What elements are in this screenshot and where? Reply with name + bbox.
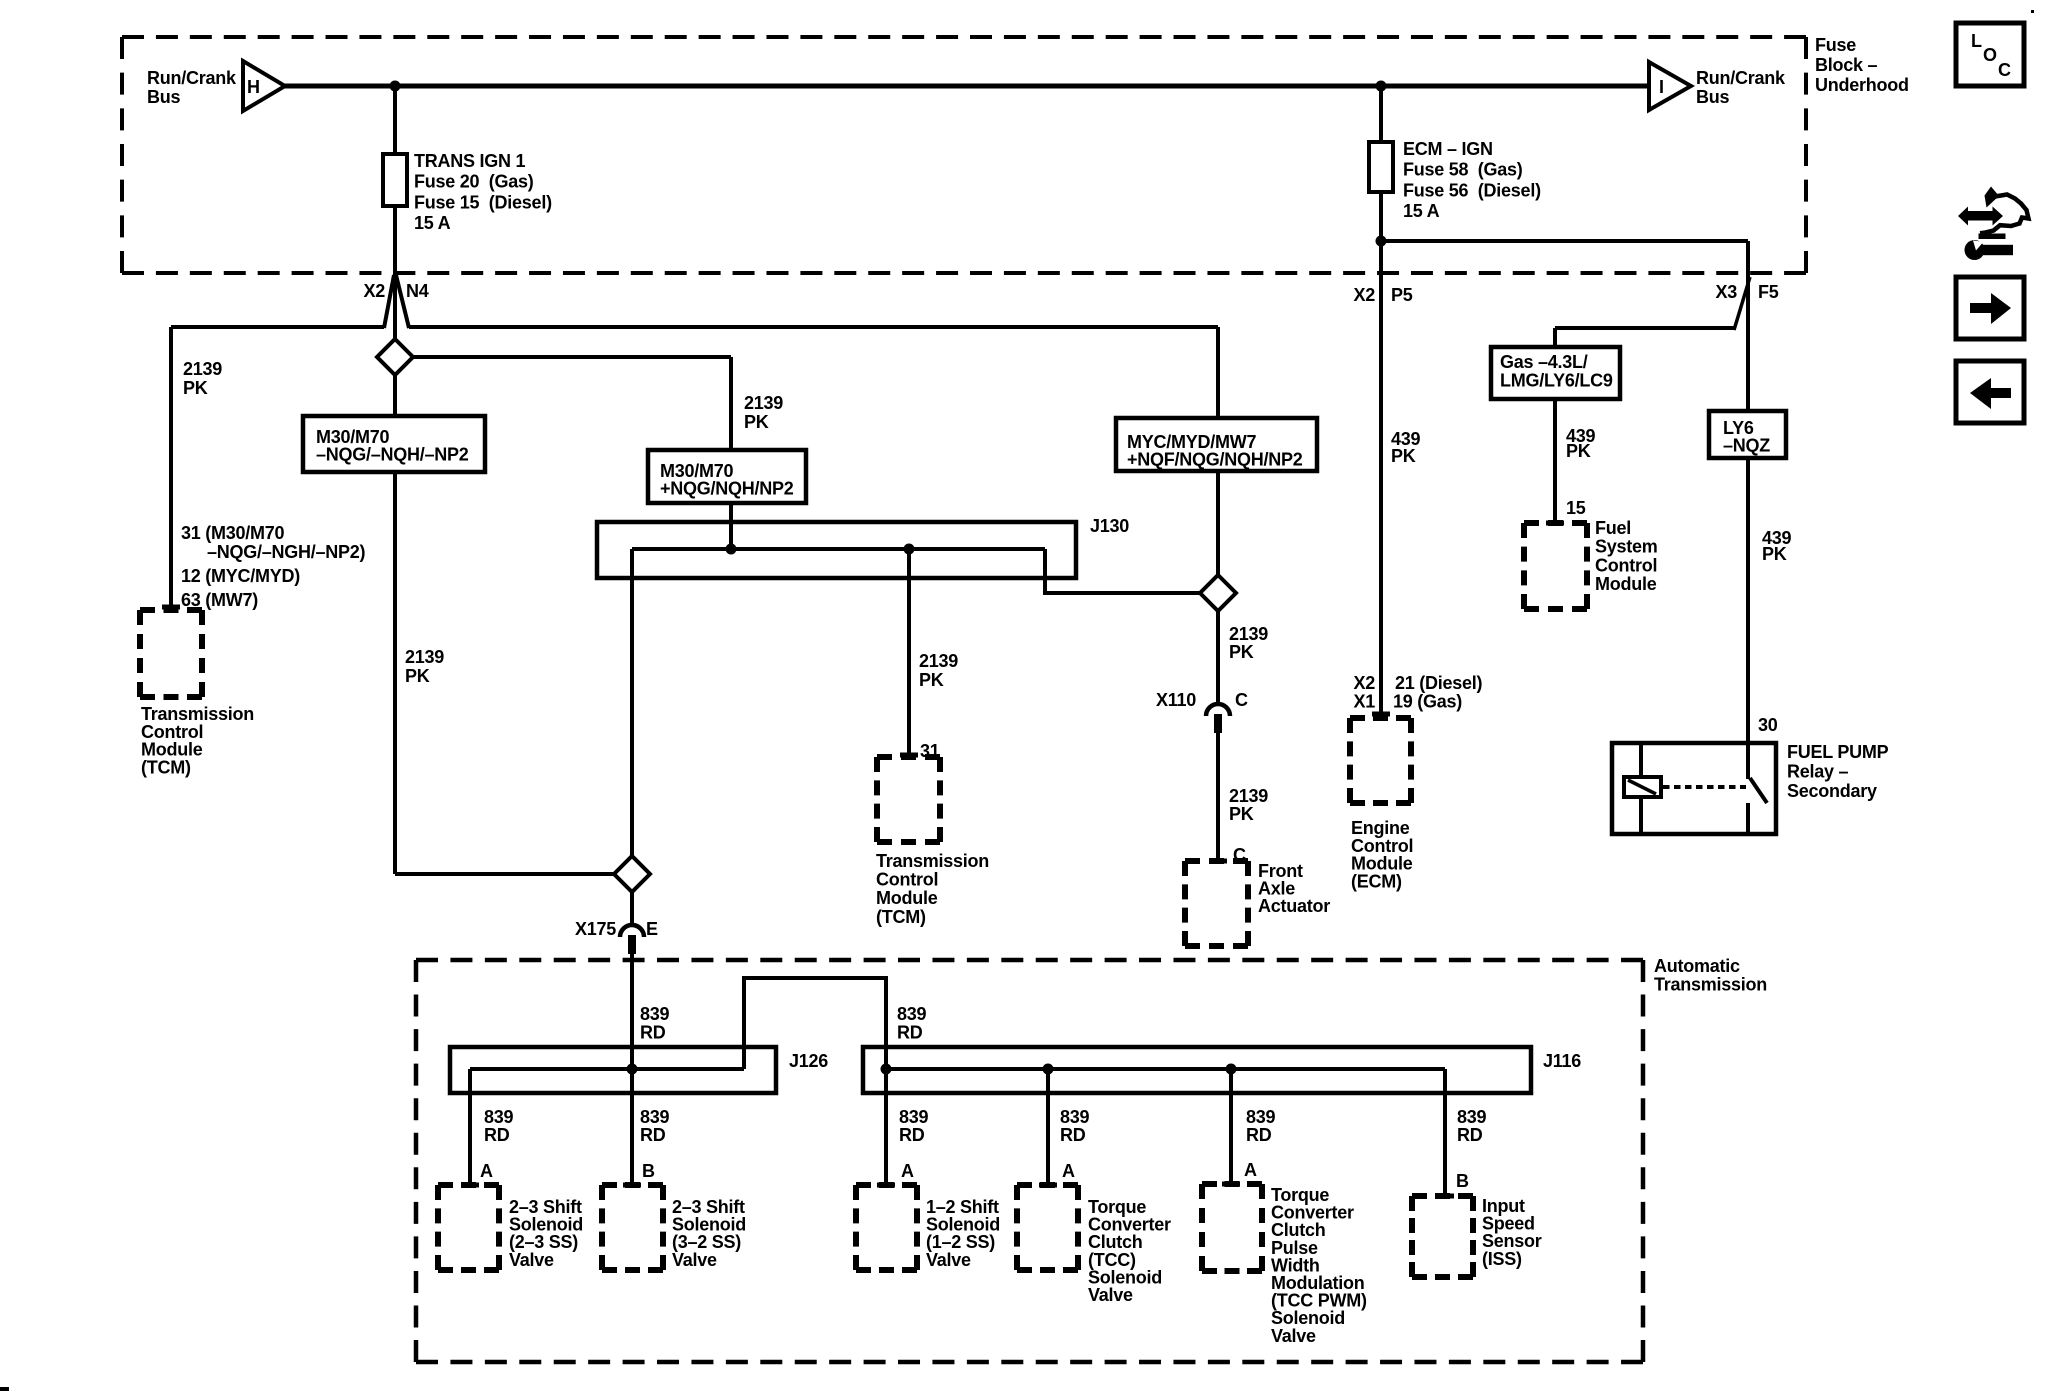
svg-text:Gas –4.3L/: Gas –4.3L/ [1500, 352, 1588, 372]
svg-text:H: H [247, 77, 260, 97]
svg-text:839: 839 [897, 1004, 927, 1024]
label Engine Control Module (ECM) [1351, 818, 1413, 891]
label Input Speed Sensor (ISS) [1482, 1196, 1542, 1269]
svg-text:Run/Crank: Run/Crank [1696, 68, 1786, 88]
module Transmission Control Module (TCM) middle dashed box [877, 757, 940, 842]
label 2139 PK +NQG branch [744, 393, 783, 432]
svg-text:PK: PK [183, 378, 208, 398]
relay actuation dashed link [1663, 785, 1746, 789]
svg-text:Valve: Valve [672, 1250, 717, 1270]
icon forward arrow box [1956, 277, 2024, 339]
wire bus to fuse TRANS IGN 1 [393, 86, 397, 154]
connector X110 inline [1206, 704, 1230, 733]
wire J130 bus left end down to diamond [630, 549, 634, 856]
label 839 RD drop 2-3 SS A [484, 1107, 514, 1145]
wire splice to +NQG branch horizontal [413, 355, 731, 359]
svg-text:ECM – IGN: ECM – IGN [1403, 139, 1493, 159]
wire 439 PK LY6 to fuel pump relay pin 30 [1746, 458, 1750, 779]
label Transmission Control Module (TCM) left [141, 704, 254, 777]
relay coil lead lower [1639, 797, 1643, 832]
svg-text:PK: PK [1229, 804, 1254, 824]
module TCC PWM Solenoid Valve dashed box [1202, 1184, 1262, 1271]
tick Front Axle Actuator pin [1209, 859, 1227, 864]
label 439 PK LY6 branch [1762, 528, 1792, 564]
label Fuel System Control Module [1595, 518, 1658, 594]
svg-text:Actuator: Actuator [1258, 896, 1330, 916]
svg-text:Module: Module [876, 888, 938, 908]
label 2139 PK below M30 box [405, 647, 444, 686]
tick Fuel System Control Module pin [1546, 521, 1564, 526]
label 839 RD drop TCC PWM A [1246, 1107, 1276, 1145]
svg-text:PK: PK [1566, 441, 1591, 461]
wire X2/N4 to MYC branch horizontal [409, 325, 1218, 329]
svg-text:N4: N4 [406, 281, 429, 301]
svg-text:Bus: Bus [1696, 87, 1729, 107]
svg-text:Valve: Valve [1088, 1285, 1133, 1305]
box MYC/MYD/MW7 +NQF/NQG/NQH/NP2 [1116, 418, 1317, 471]
svg-text:Secondary: Secondary [1787, 781, 1877, 801]
label Torque Converter Clutch (TCC) Solenoid Valve [1088, 1197, 1171, 1305]
svg-text:2139: 2139 [183, 359, 222, 379]
relay switch arm [1750, 778, 1767, 803]
svg-text:Run/Crank: Run/Crank [147, 68, 237, 88]
wire 839 RD J116 to TCC PWM solenoid A [1229, 1069, 1233, 1182]
svg-text:15: 15 [1566, 498, 1586, 518]
junction J116 bus at bridge [881, 1064, 892, 1075]
svg-text:Fuse 15 (Diesel): Fuse 15 (Diesel) [414, 192, 552, 212]
wire 839 RD J116 to input speed sensor B [1443, 1069, 1447, 1194]
svg-text:(ISS): (ISS) [1482, 1249, 1522, 1269]
tick pin 1-2 SS valve [877, 1183, 895, 1188]
wire F5 to Gas-4.3L branch horizontal [1555, 326, 1735, 330]
box M30/M70 +NQG/NQH/NP2 [648, 450, 806, 503]
svg-text:PK: PK [405, 666, 430, 686]
svg-text:15 A: 15 A [1403, 201, 1440, 221]
svg-text:2139: 2139 [405, 647, 444, 667]
label 839 RD drop 1-2 SS A [899, 1107, 929, 1145]
relay switch contact stub [1746, 803, 1750, 832]
svg-text:Fuse 20 (Gas): Fuse 20 (Gas) [414, 172, 534, 192]
label 839 RD above J126 [640, 1004, 670, 1043]
svg-text:15 A: 15 A [414, 213, 451, 233]
wire J130 bus right step down [1045, 549, 1200, 593]
svg-text:(ECM): (ECM) [1351, 871, 1402, 891]
wire 439 PK Gas box to Fuel System Control Module [1553, 399, 1557, 521]
label 439 PK ECM branch [1391, 429, 1421, 466]
bus source triangle H [243, 61, 285, 111]
svg-text:Control: Control [876, 870, 938, 890]
label TCC PWM Solenoid Valve [1271, 1185, 1367, 1346]
svg-text:X2: X2 [363, 281, 385, 301]
connector X2/N4 tent symbol [384, 275, 409, 328]
module Transmission Control Module (TCM) left dashed box [140, 610, 202, 697]
label pin 31 line1 [181, 523, 285, 543]
tick pin 2-3 SS valve [461, 1183, 479, 1188]
svg-text:2139: 2139 [919, 651, 958, 671]
svg-text:12 (MYC/MYD): 12 (MYC/MYD) [181, 566, 300, 586]
svg-text:L: L [1971, 31, 1982, 51]
svg-text:X3: X3 [1715, 282, 1737, 302]
svg-text:RD: RD [640, 1125, 666, 1145]
label Transmission Control Module (TCM) middle [876, 851, 989, 927]
svg-text:839: 839 [1246, 1107, 1276, 1127]
module TCC Solenoid Valve dashed box [1017, 1185, 1078, 1270]
svg-text:PK: PK [1762, 544, 1787, 564]
svg-text:Automatic: Automatic [1654, 956, 1740, 976]
icon harness routing (double arrow, harness band, wrench) [1958, 187, 2029, 261]
splice diamond on MYC branch [1200, 575, 1236, 611]
label M30/M70 +NQG/NQH/NP2 [660, 461, 794, 499]
wire 839 RD X175 into J126 [630, 954, 634, 1069]
svg-text:30: 30 [1758, 715, 1778, 735]
label 2139 PK left branch [183, 359, 222, 398]
label 1-2 Shift Solenoid (1-2 SS) Valve [926, 1197, 1000, 1270]
svg-text:(TCM): (TCM) [141, 757, 191, 777]
wire 2139 PK M30 box down [393, 472, 397, 874]
svg-text:F5: F5 [1758, 282, 1779, 302]
wire 2139 PK to M30/M70 +NQG box [729, 357, 733, 450]
label 839 RD bridge to J116 [897, 1004, 927, 1043]
svg-text:Bus: Bus [147, 87, 180, 107]
tick TCM middle pin [900, 753, 918, 758]
wire X2/N4 to left TCM branch horizontal [171, 325, 384, 329]
tick pin ISS [1436, 1194, 1454, 1199]
svg-text:PK: PK [1229, 642, 1254, 662]
tick TCM left pin [162, 605, 180, 610]
wire down into Gas-4.3L box [1553, 328, 1557, 347]
tick pin 3-2 SS valve [623, 1183, 641, 1188]
svg-text:RD: RD [1246, 1125, 1272, 1145]
svg-text:Module: Module [1595, 574, 1657, 594]
box LY6 -NQZ [1709, 411, 1786, 458]
label fuse ECM-IGN [1403, 139, 1541, 221]
svg-text:A: A [480, 1161, 493, 1181]
label 839 RD drop TCC A [1060, 1107, 1090, 1145]
tick pin TCC valve [1039, 1183, 1057, 1188]
svg-text:Valve: Valve [926, 1250, 971, 1270]
svg-text:J130: J130 [1090, 516, 1129, 536]
label 839 RD drop 2-3 SS B [640, 1107, 670, 1145]
svg-text:–NQZ: –NQZ [1723, 436, 1770, 456]
svg-text:X1: X1 [1353, 692, 1375, 712]
label 2139 PK middle TCM branch [919, 651, 958, 690]
module Input Speed Sensor (ISS) dashed box [1412, 1196, 1473, 1277]
label Run/Crank Bus right [1696, 68, 1786, 107]
svg-text:J126: J126 [789, 1051, 828, 1071]
svg-text:Underhood: Underhood [1815, 75, 1909, 95]
wire 839 RD J126 to 2-3 shift solenoid A [468, 1069, 472, 1183]
connector X175 inline [620, 925, 644, 954]
svg-text:–NQG/–NGH/–NP2): –NQG/–NGH/–NP2) [207, 542, 366, 562]
svg-text:X110: X110 [1156, 690, 1196, 710]
svg-text:Fuse: Fuse [1815, 35, 1856, 55]
wire diamond to connector X175 [630, 892, 634, 927]
wire bus to fuse ECM-IGN [1379, 86, 1383, 142]
wire diamond down to connector X110 [1216, 611, 1220, 705]
bus destination triangle I [1649, 62, 1691, 110]
svg-text:Valve: Valve [509, 1250, 554, 1270]
svg-text:B: B [642, 1161, 655, 1181]
junction J130 bus at +NQG drop [726, 544, 737, 555]
wire Run/Crank bus horizontal [284, 84, 1650, 89]
label Gas -4.3L/LMG/LY6/LC9 [1500, 352, 1613, 391]
svg-text:839: 839 [1457, 1107, 1487, 1127]
label 2-3 Shift Solenoid (3-2 SS) Valve [672, 1197, 746, 1270]
label Front Axle Actuator [1258, 861, 1330, 916]
svg-text:2139: 2139 [744, 393, 783, 413]
svg-text:A: A [1062, 1161, 1075, 1181]
wire MYC box down to splice diamond [1216, 471, 1220, 575]
wire 2139 PK J130 to TCM middle [907, 549, 911, 753]
svg-text:J116: J116 [1543, 1051, 1581, 1071]
svg-text:+NQF/NQG/NQH/NP2: +NQF/NQG/NQH/NP2 [1127, 450, 1303, 470]
svg-text:839: 839 [484, 1107, 514, 1127]
svg-text:839: 839 [899, 1107, 929, 1127]
box Gas -4.3L/LMG/LY6/LC9 [1491, 347, 1620, 399]
junction on bus at TRANS IGN 1 fuse [390, 81, 401, 92]
svg-text:839: 839 [640, 1004, 670, 1024]
fuse block - underhood dashed outline [122, 37, 1806, 273]
relay coil lead upper [1639, 743, 1643, 777]
svg-text:Block –: Block – [1815, 55, 1878, 75]
junction J116 bus at TCC PWM drop [1226, 1064, 1237, 1075]
label Run/Crank Bus left [147, 68, 237, 107]
junction J116 bus at TCC drop [1043, 1064, 1054, 1075]
wire +NQG box to J130 splice pack [729, 503, 733, 549]
svg-text:A: A [901, 1161, 914, 1181]
svg-text:X2: X2 [1353, 285, 1375, 305]
tick pin TCC PWM valve [1222, 1182, 1240, 1187]
svg-text:B: B [1456, 1171, 1469, 1191]
splice pack J130 box [597, 522, 1076, 578]
wire connector to M30/M70 box [393, 340, 397, 416]
tick ECM pin [1372, 712, 1390, 717]
svg-text:–NQG/–NQH/–NP2: –NQG/–NQH/–NP2 [316, 445, 469, 465]
module Front Axle Actuator dashed box [1185, 861, 1248, 946]
svg-text:839: 839 [1060, 1107, 1090, 1127]
module Engine Control Module (ECM) dashed box [1350, 718, 1411, 803]
svg-text:LMG/LY6/LC9: LMG/LY6/LC9 [1500, 371, 1613, 391]
wire 839 RD J126 to 2-3 shift solenoid B [630, 1069, 634, 1183]
label 2139 PK above X110 [1229, 624, 1268, 662]
svg-text:RD: RD [1060, 1125, 1086, 1145]
svg-text:Fuse 58 (Gas): Fuse 58 (Gas) [1403, 160, 1523, 180]
svg-text:Fuse 56 (Diesel): Fuse 56 (Diesel) [1403, 180, 1541, 200]
svg-text:Transmission: Transmission [1654, 975, 1767, 995]
svg-text:O: O [1983, 45, 1997, 65]
svg-text:C: C [1235, 690, 1248, 710]
label fuse TRANS IGN 1 [414, 151, 552, 233]
svg-text:Fuel: Fuel [1595, 518, 1631, 538]
module 2-3 Shift Solenoid (2-3 SS) Valve dashed box [438, 1185, 499, 1270]
module 2-3 Shift Solenoid (3-2 SS) Valve dashed box [602, 1185, 663, 1270]
fuse ECM-IGN (Fuse 58 Gas / Fuse 56 Diesel, 15 A) [1369, 142, 1393, 192]
label Automatic Transmission [1654, 956, 1767, 995]
svg-text:RD: RD [1457, 1125, 1483, 1145]
svg-text:A: A [1244, 1160, 1257, 1180]
J126 internal bus [470, 1067, 744, 1071]
icon LOC box [1956, 23, 2024, 86]
svg-text:PK: PK [1391, 446, 1416, 466]
svg-text:Control: Control [1595, 555, 1657, 575]
wire horizontal to MYC/MYD/MW7 box [1216, 327, 1220, 418]
wire bridge J126 bus to J116 bus [744, 978, 886, 1069]
connector X3/F5 slash symbol [1734, 277, 1750, 330]
svg-text:Relay –: Relay – [1787, 762, 1849, 782]
svg-text:+NQG/NQH/NP2: +NQG/NQH/NP2 [660, 479, 794, 499]
svg-text:RD: RD [899, 1125, 925, 1145]
svg-text:RD: RD [640, 1023, 666, 1043]
svg-text:TRANS IGN 1: TRANS IGN 1 [414, 151, 526, 171]
J130 internal bus [632, 547, 1045, 551]
svg-text:System: System [1595, 537, 1658, 557]
splice pack J126 box [450, 1047, 776, 1093]
svg-text:19 (Gas): 19 (Gas) [1393, 692, 1462, 712]
svg-text:RD: RD [897, 1023, 923, 1043]
relay coil [1624, 777, 1661, 797]
wire 839 RD J116 to TCC solenoid A [1046, 1069, 1050, 1183]
wire 2139 PK left branch down to TCM [169, 327, 173, 605]
box M30/M70 -NQG/-NQH/-NP2 [303, 416, 485, 472]
junction dot below ECM-IGN fuse [1376, 236, 1387, 247]
label Fuse Block - Underhood [1815, 35, 1909, 95]
splice pack J116 box [863, 1047, 1531, 1093]
junction J126 bus at X175 wire [627, 1064, 638, 1075]
label 2-3 Shift Solenoid (2-3 SS) Valve [509, 1197, 583, 1270]
stray dot bottom left [0, 1387, 9, 1391]
wire 2139 PK X110 to front axle actuator [1216, 733, 1220, 859]
svg-text:21 (Diesel): 21 (Diesel) [1395, 673, 1483, 693]
svg-text:RD: RD [484, 1125, 510, 1145]
icon back arrow box [1956, 361, 2024, 423]
Automatic Transmission dashed outline [416, 960, 1643, 1362]
label 439 PK gas branch [1566, 426, 1596, 461]
stray dot top right [2031, 10, 2034, 13]
relay FUEL PUMP Relay - Secondary box [1612, 743, 1776, 834]
splice diamond below X2/N4 [377, 339, 413, 375]
wire corner to diamond at X175 branch [395, 872, 614, 876]
svg-text:(TCM): (TCM) [876, 907, 926, 927]
fuse TRANS IGN 1 (Fuse 20 Gas / Fuse 15 Diesel, 15 A) [383, 154, 407, 206]
module 1-2 Shift Solenoid (1-2 SS) Valve dashed box [856, 1185, 917, 1270]
svg-text:Transmission: Transmission [876, 851, 989, 871]
label MYC/MYD/MW7 +NQF/NQG/NQH/NP2 [1127, 432, 1303, 470]
svg-text:P5: P5 [1391, 285, 1413, 305]
svg-text:FUEL PUMP: FUEL PUMP [1787, 742, 1889, 762]
svg-text:I: I [1659, 77, 1664, 97]
svg-text:X175: X175 [575, 919, 616, 939]
svg-text:Valve: Valve [1271, 1326, 1316, 1346]
J116 internal bus [886, 1067, 1445, 1071]
splice diamond on X175 branch [614, 856, 650, 892]
junction on bus at ECM-IGN fuse [1376, 81, 1387, 92]
svg-text:PK: PK [919, 670, 944, 690]
label LY6 -NQZ [1723, 418, 1770, 456]
junction J130 bus at TCM drop [904, 544, 915, 555]
module Fuel System Control Module dashed box [1524, 523, 1587, 609]
svg-text:31 (M30/M70: 31 (M30/M70 [181, 523, 285, 543]
svg-text:E: E [646, 919, 658, 939]
svg-text:C: C [1998, 60, 2011, 80]
wire fuse ECM-IGN down to ECM [1379, 192, 1383, 712]
label FUEL PUMP Relay - Secondary [1787, 742, 1889, 801]
wire fuse to connector X2/N4 [393, 206, 397, 340]
svg-text:839: 839 [640, 1107, 670, 1127]
svg-text:2139: 2139 [1229, 624, 1268, 644]
wire 839 RD J116 to 1-2 shift solenoid A [884, 1069, 888, 1183]
label M30/M70 -NQG/-NQH/-NP2 [316, 427, 469, 465]
svg-text:PK: PK [744, 412, 769, 432]
svg-text:2139: 2139 [1229, 786, 1268, 806]
wire F5 vertical through connector X3/F5 [1746, 241, 1750, 411]
label 839 RD drop ISS B [1457, 1107, 1487, 1145]
wire junction to F5 branch horizontal [1381, 239, 1748, 243]
label 2139 PK below X110 [1229, 786, 1268, 824]
svg-text:X2: X2 [1353, 673, 1375, 693]
